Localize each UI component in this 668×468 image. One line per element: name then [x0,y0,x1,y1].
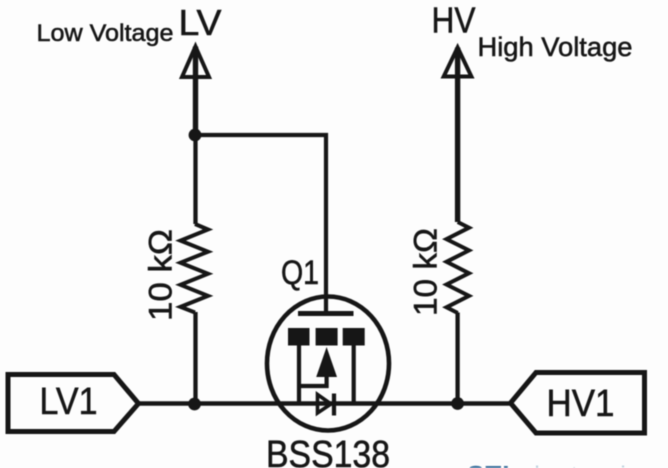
svg-text:Q1: Q1 [281,254,319,292]
svg-text:10 kΩ: 10 kΩ [143,229,179,321]
transistor Q1 body circle [267,297,389,431]
svg-text:LV1: LV1 [40,381,98,423]
svg-text:BSS138: BSS138 [266,434,390,468]
svg-text:STL: STL [467,460,519,468]
svg-text:High Voltage: High Voltage [478,32,633,62]
svg-text:HV1: HV1 [547,383,615,425]
resistor R2 10k zigzag [447,222,470,313]
wire resistor R1 to LV1 node [193,312,197,404]
Q1 body arrow [316,347,337,377]
svg-text:10 kΩ: 10 kΩ [408,228,444,316]
wire gate entering Q1 [324,296,328,311]
Q1 body diode triangle [318,395,332,414]
connector LV1 flag [8,375,139,432]
wire LV arrow to junction [193,47,198,136]
junction dot LV1 node [188,398,201,411]
Q1 channel region source block [288,328,310,346]
Q1 source lead [297,346,301,405]
Q1 body stem and tie to source [299,375,327,386]
junction dot LV node [189,129,202,142]
svg-text:LV: LV [179,2,222,43]
wire resistor R2 to HV1 node [455,313,459,404]
Q1 body diode cathode bar [332,394,336,416]
power symbol HV arrow [444,48,472,77]
wire main signal LV1 to HV1 [139,401,511,406]
Q1 channel region drain block [343,328,365,346]
svg-text:electronics: electronics [519,462,656,468]
svg-text:HV: HV [432,0,476,41]
wire LV junction to resistor R1 [193,135,197,224]
svg-text:Low Voltage: Low Voltage [37,20,174,47]
wire HV arrow to resistor R2 [455,48,460,223]
junction dot HV1 node [451,397,464,410]
resistor R1 10k zigzag [181,224,209,313]
wire gate net: LV junction to Q1 gate [196,135,327,311]
Q1 drain lead [352,346,356,405]
Q1 channel region body block [316,328,338,346]
connector HV1 flag [511,373,645,434]
Q1 gate bar [298,311,354,316]
power symbol LV arrow [182,47,209,78]
